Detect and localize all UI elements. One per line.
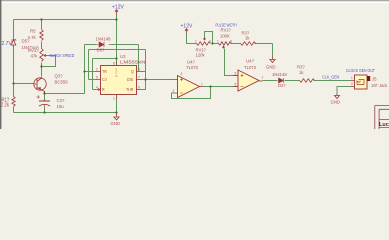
svg-text:TR: TR	[102, 69, 107, 74]
svg-text:3: 3	[138, 68, 140, 72]
svg-text:7: 7	[138, 76, 140, 80]
svg-text:Luc: Luc	[379, 122, 389, 128]
svg-text:+12V: +12V	[112, 4, 124, 10]
svg-text:RV1?: RV1?	[28, 48, 39, 53]
svg-text:CV: CV	[102, 77, 107, 82]
svg-text:1: 1	[217, 40, 219, 44]
svg-text:CLOCK SPEED: CLOCK SPEED	[49, 52, 74, 58]
svg-text:Q3?: Q3?	[55, 73, 64, 78]
svg-text:7: 7	[262, 76, 264, 80]
svg-text:4: 4	[96, 86, 98, 90]
svg-text:R: R	[102, 87, 105, 92]
svg-text:1k: 1k	[299, 70, 304, 75]
svg-text:2.7V: 2.7V	[2, 41, 13, 47]
svg-text:47k: 47k	[31, 53, 39, 58]
svg-text:J5: J5	[372, 76, 377, 81]
svg-text:C3?: C3?	[57, 98, 65, 103]
svg-text:1: 1	[201, 83, 203, 87]
svg-text:R3?: R3?	[242, 30, 250, 35]
svg-text:GND: GND	[331, 99, 341, 104]
svg-text:BC558: BC558	[55, 79, 69, 84]
svg-text:RV1?: RV1?	[221, 27, 232, 32]
svg-text:PULSE WIDTH: PULSE WIDTH	[216, 22, 237, 28]
svg-text:R3?: R3?	[297, 64, 305, 69]
svg-text:1: 1	[195, 40, 197, 44]
svg-text:8: 8	[113, 62, 115, 66]
svg-text:U4?: U4?	[187, 59, 195, 64]
svg-text:GND: GND	[266, 64, 276, 69]
svg-text:1/8" Jack: 1/8" Jack	[371, 83, 388, 88]
svg-text:120k: 120k	[196, 52, 206, 57]
svg-text:6: 6	[235, 83, 237, 87]
svg-text:LM555xN: LM555xN	[120, 60, 146, 65]
svg-text:2: 2	[96, 68, 98, 72]
svg-text:Q: Q	[131, 69, 134, 74]
svg-text:TL072: TL072	[186, 65, 199, 70]
svg-text:GND: GND	[111, 121, 121, 126]
svg-text:D6?: D6?	[97, 47, 105, 52]
svg-text:U4?: U4?	[246, 58, 254, 63]
svg-text:1: 1	[113, 97, 115, 101]
svg-text:THR: THR	[126, 87, 134, 92]
svg-text:1k: 1k	[245, 35, 250, 40]
svg-text:10u: 10u	[57, 104, 65, 109]
svg-text:U3: U3	[120, 54, 126, 59]
svg-text:+12V: +12V	[181, 23, 193, 29]
svg-text:1: 1	[351, 76, 353, 80]
svg-text:RV1?: RV1?	[196, 47, 207, 52]
svg-text:6: 6	[138, 86, 140, 90]
svg-text:R5: R5	[30, 28, 36, 33]
svg-text:2: 2	[173, 89, 175, 93]
svg-text:1N4148: 1N4148	[272, 72, 287, 77]
svg-text:TL072: TL072	[244, 65, 257, 70]
svg-text:DIS: DIS	[127, 77, 133, 82]
svg-text:100K: 100K	[220, 33, 230, 38]
svg-text:2: 2	[351, 82, 353, 86]
svg-text:3: 3	[209, 40, 211, 44]
svg-text:2.2k: 2.2k	[1, 102, 10, 107]
svg-text:1N4148: 1N4148	[96, 36, 111, 41]
svg-text:5: 5	[96, 76, 98, 80]
svg-text:3: 3	[181, 72, 183, 76]
svg-text:D2?: D2?	[278, 83, 286, 88]
svg-text:5: 5	[235, 72, 237, 76]
svg-text:CLK_GEN: CLK_GEN	[322, 74, 339, 79]
svg-text:4.7k: 4.7k	[28, 35, 37, 40]
svg-text:3: 3	[230, 40, 232, 44]
svg-text:CLOCK GEN OUT: CLOCK GEN OUT	[346, 67, 375, 73]
